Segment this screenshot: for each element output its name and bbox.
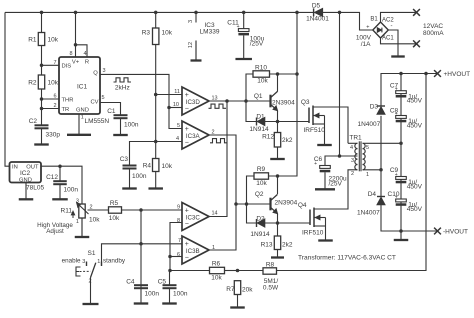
svg-text:DIS: DIS — [62, 64, 72, 70]
svg-text:S1: S1 — [88, 250, 96, 257]
svg-text:12VAC: 12VAC — [423, 23, 443, 30]
terminal X 12VAC upper — [413, 9, 420, 16]
op-amp IC3B comparator — [182, 236, 209, 264]
wire R11 bottom to ground — [81, 218, 83, 237]
svg-text:−: − — [185, 105, 189, 112]
svg-text:3: 3 — [188, 20, 194, 23]
svg-text:100n: 100n — [124, 121, 139, 128]
ground S1 — [90, 278, 92, 305]
resistor R9 10k — [254, 173, 269, 179]
svg-text:10k: 10k — [162, 30, 173, 37]
svg-text:7: 7 — [53, 60, 56, 66]
wire IC2 OUT to R11 — [41, 166, 82, 204]
svg-text:R10: R10 — [255, 64, 267, 71]
svg-text:2: 2 — [90, 205, 93, 211]
svg-text:1: 1 — [366, 172, 369, 178]
junction dot D2 Q2 emitter — [276, 221, 280, 225]
wire R6 right lead — [225, 270, 238, 272]
svg-text:D3: D3 — [370, 104, 379, 111]
capacitor C9 1u 450V — [396, 177, 407, 180]
svg-text:13: 13 — [212, 96, 218, 102]
svg-text:/1A: /1A — [361, 41, 371, 48]
diode D4 1N4007 — [377, 196, 385, 198]
junction dot C12 — [58, 164, 62, 168]
resistor R6 10k — [210, 267, 225, 273]
wire TR pin 2 — [42, 108, 60, 110]
svg-text:/25V: /25V — [329, 181, 343, 188]
capacitor C8 1u 450V — [396, 116, 407, 119]
wire 555 CV to C1 — [100, 103, 121, 116]
resistor R5 10k — [109, 207, 122, 213]
wire C12 drop — [59, 166, 61, 181]
svg-text:R5: R5 — [110, 200, 119, 207]
wire C2 top lead — [41, 99, 43, 125]
capacitor C4 100n — [134, 284, 148, 286]
wire Q1 collector riser — [277, 74, 279, 92]
svg-text:9: 9 — [177, 205, 180, 211]
wire TR1 pin4 to Q3 drain — [347, 107, 349, 144]
svg-text:R6: R6 — [212, 260, 221, 267]
svg-text:+: + — [314, 161, 317, 167]
svg-text:1N4001: 1N4001 — [306, 16, 329, 23]
svg-text:10: 10 — [173, 102, 179, 108]
svg-text:1N4007: 1N4007 — [358, 121, 381, 128]
wire HV feedback to R8 — [277, 74, 427, 271]
svg-text:-: - — [391, 23, 393, 29]
ground R11 — [81, 218, 83, 237]
op-amp IC3C comparator — [182, 203, 209, 231]
svg-text:1N914: 1N914 — [249, 126, 269, 133]
wire R9 left leg — [247, 176, 255, 204]
capacitor C2 330p — [35, 124, 49, 126]
svg-text:C2: C2 — [29, 118, 38, 125]
resistor R7 20k — [234, 281, 240, 295]
junction dots triangle feedback column — [168, 255, 172, 259]
voltage regulator IC2 78L05 — [10, 162, 42, 183]
wire R1 leads — [41, 12, 43, 32]
wire Q2 base line — [236, 203, 271, 205]
ground -HV rail — [400, 231, 402, 240]
wire D1 anode to Q3 gate — [265, 121, 309, 123]
bridge rectifier B1 100V 1A — [373, 22, 389, 38]
wire IC3 supply pin 3 stub — [195, 12, 197, 22]
junction dots control voltage column — [139, 208, 143, 212]
svg-text:IRF510: IRF510 — [302, 229, 324, 236]
wire R3 top lead — [155, 12, 157, 28]
svg-text:+: + — [395, 172, 398, 178]
svg-text:5: 5 — [177, 123, 180, 129]
wire left border from rail to IC2 IN — [5, 12, 10, 166]
junction dot TR1 pin1 column — [379, 168, 383, 172]
wire +12V column x339 to TR1 centre tap — [339, 12, 341, 156]
svg-text:3: 3 — [103, 68, 106, 74]
ground Q3 source — [324, 124, 326, 145]
capacitor C11 100u 25V — [238, 29, 249, 32]
wire R10 left leg — [246, 74, 253, 101]
svg-text:C12: C12 — [46, 174, 58, 181]
wire TR1 pin1 lead — [363, 169, 382, 171]
svg-text:Q2: Q2 — [255, 191, 264, 198]
wire 555 V+ and reset bracket — [76, 12, 88, 57]
svg-text:1: 1 — [81, 115, 84, 121]
transistor Q3 IRF510 — [308, 108, 310, 124]
svg-text:R8: R8 — [266, 261, 275, 268]
op-amp IC3A comparator — [182, 121, 209, 149]
diode D1 1N914 — [256, 118, 258, 126]
wire D2 anode to Q4 gate — [265, 222, 310, 224]
terminal X +HVOUT — [434, 70, 441, 77]
ground C5 — [169, 288, 171, 303]
resistor R13 2k2 — [274, 236, 280, 250]
svg-text:+: + — [395, 195, 398, 201]
ground R7 — [237, 295, 239, 308]
wire +12V column x297 — [278, 12, 298, 176]
resistor R10 10k — [253, 71, 270, 77]
svg-text:/25V: /25V — [250, 41, 264, 48]
svg-text:R9: R9 — [257, 166, 266, 173]
capacitor C7 1u 450V — [396, 91, 407, 94]
wire bridge minus to ground — [388, 30, 398, 44]
ground IC3 pin12 — [195, 41, 197, 61]
wire pin13 net to Q1 base — [209, 100, 271, 102]
ground IC2 — [25, 183, 27, 200]
svg-text:2N3904: 2N3904 — [275, 200, 298, 207]
svg-text:2: 2 — [212, 129, 215, 135]
wire D3 cathode to +HV rail — [381, 74, 438, 107]
capacitor C6 2200u 25V — [320, 166, 331, 169]
transistor Q4 IRF510 — [309, 210, 311, 226]
svg-text:+: + — [237, 24, 240, 30]
svg-text:5: 5 — [366, 145, 369, 151]
junction dots Q1 drive node — [225, 99, 229, 103]
svg-text:10k: 10k — [162, 163, 173, 170]
ground B1 minus — [397, 44, 399, 57]
svg-text:C10: C10 — [388, 191, 400, 198]
svg-text:2kHz: 2kHz — [115, 84, 130, 91]
svg-text:IC3B: IC3B — [186, 248, 200, 255]
svg-text:10k: 10k — [89, 216, 100, 223]
svg-text:C1: C1 — [107, 108, 116, 115]
junction dots Q2 drive node — [234, 202, 238, 206]
wire IC3 supply pin 12 stub — [195, 41, 197, 61]
wire control column to IC3B+ and C4 — [141, 210, 182, 288]
svg-text:78L05: 78L05 — [26, 185, 44, 192]
svg-text:standby: standby — [103, 258, 126, 265]
junction dot TR1 pin5 C8 C9 — [399, 142, 403, 146]
squarewave IC3A output — [210, 139, 228, 143]
svg-text:1: 1 — [212, 245, 215, 251]
svg-text:IC3C: IC3C — [186, 215, 201, 222]
svg-text:R2: R2 — [28, 80, 37, 87]
svg-text:IC3D: IC3D — [186, 99, 201, 106]
svg-text:D4: D4 — [368, 191, 377, 198]
junction dots R10 rail — [276, 72, 280, 76]
wire S1 to control node — [102, 244, 142, 266]
wire D4 anode to -HV rail — [381, 204, 438, 231]
potentiometer R11 10k High Voltage Adjust — [79, 204, 85, 218]
svg-text:GND: GND — [76, 107, 89, 113]
wire R3 column to R4 — [155, 45, 157, 159]
ground R4 — [155, 172, 157, 189]
svg-text:+: + — [185, 207, 189, 214]
transistor Q2 2N3904 — [269, 198, 271, 211]
svg-text:100n: 100n — [145, 291, 160, 298]
wire C11 top lead — [243, 12, 245, 28]
svg-text:-HVOUT: -HVOUT — [443, 228, 468, 235]
diode D3 1N4007 — [377, 105, 385, 107]
svg-text:12: 12 — [188, 42, 194, 48]
svg-text:1: 1 — [76, 219, 79, 225]
wire IC3A- pin 4 and C3 branch — [130, 142, 183, 166]
wire Q2 emitter drop — [277, 214, 279, 224]
svg-text:AC1: AC1 — [382, 36, 394, 42]
ground C6 — [324, 172, 326, 189]
wire D5 anode to bridge — [323, 12, 373, 30]
svg-text:20k: 20k — [242, 286, 253, 293]
svg-text:1N914: 1N914 — [250, 231, 270, 238]
svg-text:6: 6 — [53, 94, 56, 100]
svg-text:5: 5 — [102, 95, 105, 101]
resistor R8 5M1 0.5W — [263, 268, 277, 274]
diode D2 1N914 — [256, 219, 258, 227]
wire R2 leads — [41, 65, 43, 75]
wire IC3D+ pin 11 — [156, 94, 182, 96]
svg-text:Q4: Q4 — [298, 202, 307, 209]
svg-text:450V: 450V — [407, 98, 423, 105]
svg-text:450V: 450V — [407, 206, 423, 213]
svg-text:IC2: IC2 — [20, 170, 31, 177]
svg-text:Q3: Q3 — [301, 99, 310, 106]
ground R13 — [277, 250, 279, 258]
wire R8 to R6 R7 node — [238, 270, 264, 272]
svg-text:8: 8 — [177, 218, 180, 224]
wire THR pin 6 — [42, 98, 60, 100]
svg-text:+: + — [395, 86, 398, 92]
svg-text:3: 3 — [76, 198, 79, 204]
ground C2 — [41, 128, 43, 144]
svg-text:R13: R13 — [261, 241, 273, 248]
wire bridge AC1 to terminal — [381, 38, 417, 44]
ground C4 — [140, 288, 142, 303]
ground C1 — [120, 118, 122, 135]
wire C6 to centre tap node — [325, 156, 358, 166]
wire +12V top rail — [5, 11, 314, 13]
svg-text:−: − — [185, 254, 189, 261]
squarewave IC3D output — [209, 104, 227, 108]
wire R5 control voltage line to IC3C+ — [88, 209, 183, 211]
svg-text:1: 1 — [97, 259, 100, 265]
svg-text:8: 8 — [69, 51, 72, 57]
svg-text:Q1: Q1 — [254, 93, 263, 100]
junction dots HV rails — [399, 72, 403, 76]
capacitor C3 100n — [123, 165, 137, 167]
svg-text:IC1: IC1 — [77, 84, 88, 91]
wire DIS pin 7 — [42, 64, 60, 66]
wire inverting inputs tie column — [170, 223, 182, 271]
wire HV capacitor stack column — [400, 74, 402, 232]
resistor R12 2k2 — [274, 133, 280, 148]
svg-text:800mA: 800mA — [423, 30, 444, 37]
wire IC3D inverting input pin 10 — [169, 107, 182, 109]
svg-text:+: + — [185, 241, 189, 248]
svg-text:2: 2 — [351, 171, 354, 177]
transistor Q1 2N3904 — [269, 95, 271, 108]
svg-text:LM555N: LM555N — [85, 118, 110, 125]
wire D3 D4 column — [380, 116, 382, 197]
svg-text:R7: R7 — [226, 286, 235, 293]
svg-text:R: R — [85, 60, 89, 66]
svg-text:+HVOUT: +HVOUT — [444, 71, 471, 78]
svg-text:7: 7 — [178, 238, 181, 244]
svg-text:TR: TR — [62, 107, 70, 113]
resistor R3 10k — [153, 28, 159, 45]
svg-text:2k2: 2k2 — [282, 241, 293, 248]
svg-text:0.5W: 0.5W — [263, 284, 279, 291]
svg-text:CV: CV — [90, 100, 98, 106]
ground Q4 source — [325, 226, 327, 241]
svg-text:−: − — [185, 221, 189, 228]
wire TR1 pin2 to Q4 drain — [348, 170, 358, 210]
svg-text:3: 3 — [82, 259, 85, 265]
svg-text:+: + — [366, 24, 369, 30]
svg-text:11: 11 — [174, 89, 180, 95]
svg-text:V+: V+ — [72, 60, 80, 66]
ground IC1 pin1 — [78, 114, 80, 135]
svg-text:+: + — [185, 126, 189, 133]
wire D2 branch — [247, 204, 257, 223]
junction dots R1 R2 column — [40, 64, 44, 68]
svg-text:IRF510: IRF510 — [304, 127, 326, 134]
svg-text:R3: R3 — [142, 30, 151, 37]
svg-text:D5: D5 — [312, 2, 321, 9]
svg-text:1N4007: 1N4007 — [357, 209, 380, 216]
ground R12 — [277, 147, 279, 159]
svg-text:10k: 10k — [256, 180, 267, 187]
wire Q2 collector riser — [277, 176, 279, 194]
svg-text:10k: 10k — [48, 37, 59, 44]
svg-text:10k: 10k — [257, 77, 268, 84]
svg-text:R11: R11 — [61, 208, 73, 215]
capacitor C12 100n — [53, 180, 67, 182]
svg-text:−: − — [185, 139, 189, 146]
wire R6 left lead to C5 node — [170, 270, 210, 272]
junction dot 555 reset bracket — [74, 43, 78, 47]
svg-text:Transformer: 117VAC-6.3VAC CT: Transformer: 117VAC-6.3VAC CT — [298, 255, 396, 262]
svg-text:14: 14 — [212, 211, 218, 217]
wire R11 wiper — [87, 209, 89, 211]
junction dots +12V rail — [40, 11, 44, 15]
svg-text:TR1: TR1 — [349, 134, 362, 141]
svg-text:THR: THR — [62, 97, 74, 103]
svg-text:R4: R4 — [143, 163, 152, 170]
wire IC3 outputs 2-1 tie — [209, 135, 236, 250]
terminal X -HVOUT — [434, 228, 441, 235]
svg-text:450V: 450V — [407, 183, 423, 190]
wire IC3 outputs 13-14 tie — [209, 101, 227, 217]
svg-text:IN: IN — [12, 164, 18, 170]
wire R13 top lead — [277, 223, 279, 236]
junction dot D1 Q1 emitter — [276, 120, 280, 124]
wire R12 top lead — [277, 122, 279, 133]
ground C11 — [243, 35, 245, 59]
svg-text:3: 3 — [351, 158, 354, 164]
svg-text:+: + — [395, 111, 398, 117]
junction dot R6 R7 R8 node — [236, 269, 240, 273]
svg-text:Adjust: Adjust — [46, 228, 64, 235]
resistor R2 10k — [38, 75, 44, 89]
svg-text:2N3904: 2N3904 — [272, 99, 295, 106]
wire R9 right segment — [269, 175, 298, 177]
svg-text:10k: 10k — [211, 274, 222, 281]
capacitor C10 1u 450V — [396, 199, 407, 202]
wire R10 right to +12V column — [270, 73, 298, 75]
svg-text:D2: D2 — [256, 215, 265, 222]
svg-text:Q: Q — [93, 71, 98, 77]
svg-text:100n: 100n — [173, 291, 188, 298]
svg-text:6: 6 — [177, 252, 180, 258]
junction dots comparator input nodes — [154, 93, 158, 97]
svg-text:100n: 100n — [132, 173, 147, 180]
junction dot TR1 centre tap — [338, 154, 342, 158]
svg-text:330p: 330p — [46, 132, 61, 139]
svg-text:C3: C3 — [120, 156, 129, 163]
wire 555 Q output to comparator inputs — [100, 74, 182, 128]
wire IC3B- pin 6 — [170, 256, 182, 258]
svg-text:C5: C5 — [158, 278, 167, 285]
wire TR1 pin4 lead — [348, 142, 358, 144]
ground C3 — [129, 169, 131, 189]
svg-text:D1: D1 — [256, 113, 265, 120]
wire Q1 emitter drop — [277, 111, 279, 122]
svg-text:4: 4 — [84, 51, 87, 57]
resistor R4 10k — [153, 159, 159, 172]
op-amp IC3D comparator — [182, 87, 209, 115]
svg-text:enable: enable — [62, 257, 81, 264]
svg-text:100n: 100n — [64, 187, 79, 194]
diode D5 1N4001 — [313, 8, 315, 16]
junction dot R9 Q2 collector — [276, 174, 280, 178]
svg-text:R12: R12 — [262, 133, 274, 140]
svg-text:4: 4 — [176, 136, 179, 142]
svg-text:R1: R1 — [28, 37, 37, 44]
wire bridge AC2 to terminal — [381, 12, 417, 22]
resistor R1 10k — [38, 33, 44, 46]
capacitor C5 100n — [163, 284, 177, 286]
svg-text:LM339: LM339 — [200, 28, 220, 35]
svg-text:IC3A: IC3A — [186, 133, 201, 140]
svg-text:450V: 450V — [407, 122, 423, 129]
svg-text:10k: 10k — [48, 80, 59, 87]
capacitor C1 100n — [114, 114, 128, 116]
ground C12 — [59, 184, 61, 199]
svg-text:2k2: 2k2 — [282, 137, 293, 144]
wire TR1 pin5 to C8/C9 node — [363, 142, 402, 144]
svg-text:+: + — [185, 92, 189, 99]
terminal X 12VAC lower — [413, 40, 420, 47]
svg-text:4: 4 — [350, 145, 353, 151]
op-amp IC1 LM555N timer box — [59, 57, 100, 114]
svg-text:10k: 10k — [109, 215, 120, 222]
wire D1 branch — [246, 101, 257, 122]
svg-text:B1: B1 — [370, 17, 378, 23]
squarewave 2kHz annotation — [114, 78, 132, 82]
svg-text:C4: C4 — [126, 278, 135, 285]
svg-text:2: 2 — [53, 103, 56, 109]
